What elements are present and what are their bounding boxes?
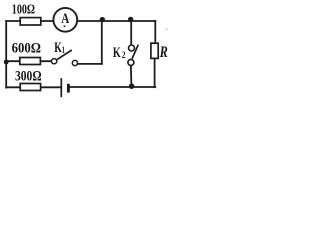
svg-text:K: K bbox=[113, 45, 121, 61]
svg-text:600Ω: 600Ω bbox=[12, 40, 41, 56]
svg-text:2: 2 bbox=[122, 51, 126, 61]
svg-text:1: 1 bbox=[62, 46, 65, 56]
svg-text:300Ω: 300Ω bbox=[15, 68, 42, 84]
svg-text:K: K bbox=[54, 40, 62, 56]
svg-text:100Ω: 100Ω bbox=[12, 2, 35, 17]
svg-text:A: A bbox=[61, 11, 69, 27]
svg-text:R: R bbox=[159, 44, 168, 61]
